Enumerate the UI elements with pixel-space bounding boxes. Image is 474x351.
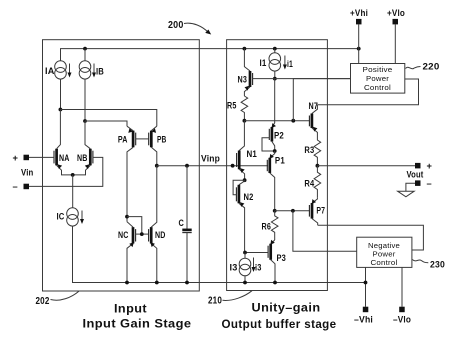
svg-text:N2: N2 [244, 192, 254, 202]
wire negative power control to -Vhi [365, 267, 367, 306]
junction I3 bottom on rail [243, 281, 247, 285]
junction positive control tap [291, 119, 295, 123]
svg-text:IB: IB [96, 67, 104, 77]
junction output node [316, 164, 320, 168]
svg-text:230: 230 [430, 260, 445, 270]
wire NC diode connection [127, 217, 142, 235]
wire bottom rail [73, 226, 366, 282]
current source I3 [239, 253, 251, 283]
negative power control box 230 [357, 237, 412, 267]
svg-text:Vin: Vin [21, 168, 34, 178]
svg-text:–Vlo: –Vlo [393, 315, 411, 325]
svg-text:–Vhi: –Vhi [354, 315, 373, 325]
junction rail to -Vhi [364, 281, 368, 285]
svg-text:210: 210 [208, 296, 222, 307]
+Vlo terminal [393, 19, 399, 25]
resistor R5 [241, 96, 248, 121]
junction I3 top / P3 gate [243, 251, 247, 255]
svg-text:220: 220 [423, 62, 440, 72]
transistor NB [73, 121, 93, 175]
wire Vinp net [157, 165, 268, 167]
junction P3 drain on rail [273, 281, 277, 285]
junction C bottom on rail [185, 281, 189, 285]
svg-text:PA: PA [118, 134, 128, 144]
current source I1 [269, 49, 281, 79]
wire negative power control to -Vlo [401, 267, 403, 306]
svg-text:P2: P2 [274, 131, 284, 141]
wire tap to negative power control [293, 211, 357, 251]
svg-text:C: C [179, 218, 185, 228]
wire I1 node to positive power control [275, 78, 351, 80]
svg-text:IA: IA [45, 66, 55, 76]
resistor R6 [271, 211, 278, 240]
svg-text:R3: R3 [304, 145, 314, 155]
svg-text:+Vlo: +Vlo [387, 8, 405, 18]
arrow i1 current [283, 56, 287, 70]
junction C top [185, 164, 189, 168]
junction I1 top on rail [273, 47, 277, 51]
label 230 leader [412, 260, 428, 263]
current source IA [55, 61, 67, 79]
junction N3 drain on rail [243, 47, 247, 51]
svg-text:+: + [13, 153, 19, 163]
Vout - terminal [415, 180, 421, 186]
node A junction (IA / NA drain / wire to PB) [59, 108, 63, 112]
wire +Vhi to positive power control [358, 24, 360, 63]
junction I1 bottom / N3 gate node [273, 77, 277, 81]
junction P1 drain / R6 / P7 gate node [273, 209, 277, 213]
svg-text:Vout: Vout [407, 170, 424, 180]
label 220 leader [406, 67, 421, 69]
svg-text:N7: N7 [309, 101, 319, 111]
transistor P2 [262, 79, 276, 151]
junction ND source on rail [155, 281, 159, 285]
svg-text:P3: P3 [277, 253, 287, 263]
svg-text:200: 200 [168, 20, 184, 31]
junction NC drain diode tap [125, 215, 129, 219]
ground symbol [398, 191, 415, 197]
transistor N7 [309, 105, 317, 139]
label Positive Power Control [363, 65, 393, 92]
junction P2 drain / P1 source [273, 149, 277, 153]
wire Vout- to ground [406, 183, 415, 191]
transistor N2 [233, 180, 245, 252]
svg-text:Output buffer stage: Output buffer stage [222, 317, 337, 331]
junction negative control tap [291, 209, 295, 213]
resistor R4 [314, 166, 321, 198]
wire Vin- to NB gate [29, 157, 103, 186]
svg-text:Vinp: Vinp [201, 154, 220, 164]
svg-text:PB: PB [157, 134, 167, 144]
-Vhi terminal [363, 307, 369, 313]
svg-text:–: – [13, 182, 18, 192]
wire output to Vout [317, 165, 415, 167]
current source IB [79, 61, 91, 79]
wire P7 source to negative power control [318, 225, 424, 250]
capacitor C [182, 166, 191, 283]
junction NC/ND gate node [140, 232, 144, 236]
svg-text:Input: Input [114, 302, 147, 316]
svg-text:Control: Control [371, 258, 398, 267]
wire node B to PA source [85, 121, 127, 126]
svg-text:NB: NB [77, 153, 88, 163]
svg-text:Power: Power [366, 74, 389, 83]
transistor P1 [267, 151, 274, 211]
svg-text:+Vhi: +Vhi [350, 8, 368, 18]
wire PA PB gate tie [136, 138, 149, 140]
wire node to P7 gate [275, 210, 310, 212]
resistor R3 [314, 139, 321, 166]
transistor ND [149, 166, 157, 283]
arrow i3 current [252, 258, 256, 273]
svg-text:Control: Control [364, 83, 391, 92]
wire IB top lead [84, 49, 86, 61]
svg-text:NA: NA [59, 153, 70, 163]
wire +Vlo to positive power control [394, 24, 396, 63]
arrow IB current [92, 64, 96, 78]
junction IB top [83, 47, 87, 51]
-Vlo terminal [399, 307, 405, 313]
transistor P3 [245, 240, 275, 283]
Vout + terminal [415, 163, 421, 169]
svg-text:+: + [427, 161, 433, 171]
wire NC ND gate tie [136, 233, 149, 235]
wire top rail [61, 49, 359, 61]
svg-text:P7: P7 [316, 206, 325, 216]
svg-text:–: – [427, 179, 432, 189]
svg-text:IC: IC [57, 212, 65, 222]
label 210 leader [223, 291, 253, 301]
wire tail node to IC [72, 175, 74, 208]
svg-text:N3: N3 [238, 75, 248, 85]
wire IA bottom to node A [60, 79, 62, 110]
transistor NC [127, 222, 136, 283]
svg-text:Positive: Positive [363, 65, 393, 74]
transistor P7 [309, 198, 317, 226]
svg-text:R4: R4 [304, 179, 315, 189]
junction NC source on rail [125, 281, 129, 285]
wire positive power control to N7 gate node [293, 79, 350, 121]
svg-text:ND: ND [155, 230, 166, 240]
positive power control box 220 [351, 64, 405, 94]
wire IB bottom to node B [84, 79, 86, 121]
svg-text:I3: I3 [230, 263, 238, 273]
svg-text:I1: I1 [260, 58, 267, 68]
wire node A to PB source [60, 110, 156, 127]
arrow IA current [68, 64, 72, 78]
input gain stage box 202 [43, 40, 200, 291]
output buffer stage box 210 [227, 40, 328, 291]
node B junction (IB / NB drain / wire to PA) [83, 119, 87, 123]
transistor NA [54, 110, 73, 175]
svg-text:P1: P1 [275, 156, 285, 166]
svg-text:Input Gain Stage: Input Gain Stage [83, 317, 192, 331]
svg-text:R5: R5 [227, 101, 237, 111]
wire N7 drain to positive power control [317, 79, 418, 105]
wire Vin+ to NA gate [29, 156, 54, 158]
wire node to N7 gate [244, 120, 309, 122]
junction NA/NB sources [71, 173, 75, 177]
svg-text:R6: R6 [262, 222, 272, 232]
svg-text:202: 202 [36, 296, 50, 307]
junction PB drain / Vinp node [155, 164, 159, 168]
svg-text:NC: NC [118, 230, 129, 240]
transistor PA [127, 126, 136, 222]
transistor N1 [237, 121, 245, 181]
svg-text:Unity–gain: Unity–gain [252, 301, 321, 315]
svg-text:i1: i1 [287, 59, 293, 69]
junction R5 bottom / N1 drain / gate feed node [243, 119, 247, 123]
svg-text:i3: i3 [255, 263, 262, 273]
+Vhi terminal [356, 19, 362, 25]
current source IC [67, 208, 79, 226]
label Negative Power Control [368, 241, 400, 267]
arrow IC current [80, 211, 84, 225]
junction N1 source / N2 drain [243, 178, 247, 182]
junction +Vhi on rail [357, 47, 361, 51]
Vin - terminal [24, 184, 30, 190]
junction on Vinp at buffer entry [231, 164, 235, 168]
transistor PB [149, 126, 157, 166]
label 200 arrow [184, 23, 211, 34]
label 202 leader [51, 291, 80, 300]
transistor N3 [244, 49, 274, 96]
svg-text:N1: N1 [247, 149, 258, 159]
Vin + terminal [24, 155, 30, 161]
